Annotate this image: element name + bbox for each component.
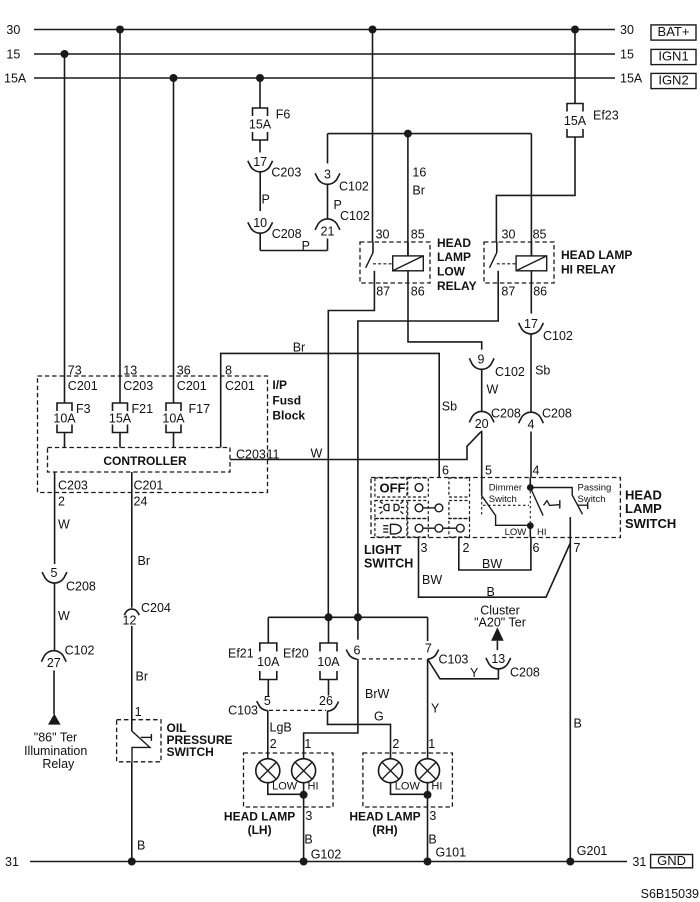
svg-text:Sb: Sb (442, 400, 457, 414)
svg-text:C208: C208 (272, 227, 302, 241)
svg-text:30: 30 (6, 23, 20, 37)
svg-text:G201: G201 (577, 844, 608, 858)
svg-text:HI RELAY: HI RELAY (561, 262, 616, 276)
svg-text:BW: BW (482, 557, 502, 571)
svg-text:C203: C203 (123, 379, 153, 393)
svg-text:Y: Y (431, 702, 440, 716)
svg-text:HEAD LAMP: HEAD LAMP (224, 810, 295, 824)
svg-text:10A: 10A (162, 411, 185, 425)
svg-text:LOW: LOW (505, 527, 527, 538)
svg-text:Br: Br (412, 184, 425, 198)
svg-text:30: 30 (620, 23, 634, 37)
svg-text:C201: C201 (225, 379, 255, 393)
svg-text:SWITCH: SWITCH (167, 745, 214, 759)
svg-text:Br: Br (138, 554, 151, 568)
svg-text:87: 87 (501, 285, 515, 299)
svg-text:C203: C203 (58, 479, 88, 493)
svg-text:RELAY: RELAY (437, 279, 477, 293)
svg-text:P: P (334, 198, 342, 212)
svg-text:6: 6 (442, 464, 449, 478)
svg-text:"A20" Ter: "A20" Ter (474, 616, 526, 630)
svg-text:Dimmer: Dimmer (489, 482, 522, 493)
svg-text:P: P (262, 193, 270, 207)
svg-text:3: 3 (305, 809, 312, 823)
svg-text:C203: C203 (236, 448, 266, 462)
svg-text:31: 31 (5, 855, 19, 869)
svg-text:2: 2 (463, 541, 470, 555)
svg-text:HI: HI (431, 780, 442, 792)
svg-text:Ef23: Ef23 (593, 109, 619, 123)
svg-text:B: B (428, 833, 436, 847)
svg-text:10A: 10A (53, 411, 76, 425)
svg-text:9: 9 (478, 352, 485, 366)
svg-text:SWITCH: SWITCH (364, 557, 413, 571)
svg-text:17: 17 (253, 155, 267, 169)
svg-text:1: 1 (428, 737, 435, 751)
svg-text:BW: BW (422, 573, 442, 587)
svg-text:2: 2 (270, 737, 277, 751)
svg-text:IGN1: IGN1 (658, 49, 688, 64)
svg-text:7: 7 (425, 642, 432, 656)
svg-text:B: B (574, 717, 582, 731)
svg-text:Switch: Switch (489, 494, 517, 505)
svg-text:7: 7 (574, 541, 581, 555)
svg-text:Ef20: Ef20 (283, 647, 309, 661)
svg-text:C103: C103 (228, 704, 258, 718)
svg-text:24: 24 (134, 495, 148, 509)
svg-text:6: 6 (533, 541, 540, 555)
svg-text:2: 2 (58, 495, 65, 509)
svg-text:B: B (137, 839, 145, 853)
svg-text:20: 20 (475, 417, 489, 431)
svg-text:P: P (302, 239, 310, 253)
svg-text:Y: Y (470, 666, 479, 680)
svg-text:C208: C208 (66, 580, 96, 594)
svg-text:17: 17 (524, 317, 538, 331)
svg-text:13: 13 (123, 364, 137, 378)
svg-text:30: 30 (502, 228, 516, 242)
svg-text:C102: C102 (495, 365, 525, 379)
svg-text:"86" Ter: "86" Ter (34, 731, 77, 745)
svg-text:15: 15 (620, 48, 634, 62)
svg-text:HEAD LAMP: HEAD LAMP (561, 248, 632, 262)
svg-text:C201: C201 (177, 379, 207, 393)
svg-text:C208: C208 (542, 407, 572, 421)
svg-text:15A: 15A (4, 72, 27, 86)
svg-text:I/P: I/P (272, 378, 287, 392)
svg-text:W: W (58, 609, 70, 623)
svg-text:26: 26 (319, 694, 333, 708)
svg-text:3: 3 (421, 541, 428, 555)
svg-text:15A: 15A (109, 411, 132, 425)
svg-text:1: 1 (135, 705, 142, 719)
svg-text:Br: Br (136, 670, 149, 684)
svg-text:G101: G101 (436, 846, 467, 860)
svg-text:3: 3 (324, 167, 331, 181)
svg-text:GND: GND (657, 853, 686, 868)
svg-text:C201: C201 (68, 379, 98, 393)
svg-text:S6B15039: S6B15039 (641, 887, 699, 901)
svg-text:W: W (58, 518, 70, 532)
svg-text:3: 3 (429, 809, 436, 823)
svg-text:86: 86 (411, 285, 425, 299)
svg-text:21: 21 (321, 224, 335, 238)
svg-text:2: 2 (392, 737, 399, 751)
svg-text:10: 10 (253, 216, 267, 230)
svg-text:Br: Br (293, 341, 306, 355)
svg-text:LIGHT: LIGHT (364, 543, 402, 557)
svg-text:OFF: OFF (380, 481, 406, 496)
svg-text:Block: Block (272, 409, 305, 423)
svg-text:B: B (304, 833, 312, 847)
svg-text:G102: G102 (311, 848, 342, 862)
svg-text:IGN2: IGN2 (658, 73, 688, 88)
svg-text:8: 8 (225, 364, 232, 378)
svg-text:5: 5 (51, 566, 58, 580)
svg-text:10A: 10A (257, 655, 280, 669)
svg-text:86: 86 (533, 285, 547, 299)
svg-text:C204: C204 (141, 601, 171, 615)
svg-text:W: W (487, 383, 499, 397)
svg-text:F21: F21 (132, 402, 154, 416)
svg-text:BAT+: BAT+ (658, 24, 690, 39)
svg-text:30: 30 (376, 228, 390, 242)
svg-text:13: 13 (491, 652, 505, 666)
svg-text:5: 5 (264, 694, 271, 708)
svg-text:Illumination: Illumination (24, 744, 87, 758)
svg-text:C203: C203 (271, 166, 301, 180)
svg-text:BrW: BrW (365, 687, 390, 701)
svg-text:15A: 15A (620, 72, 643, 86)
svg-text:LgB: LgB (270, 721, 292, 735)
svg-text:LOW: LOW (395, 780, 421, 792)
svg-text:15A: 15A (249, 118, 272, 132)
svg-text:LAMP: LAMP (437, 250, 471, 264)
svg-text:87: 87 (376, 285, 390, 299)
svg-text:F6: F6 (276, 108, 291, 122)
svg-text:11: 11 (267, 448, 280, 462)
svg-text:HI: HI (537, 527, 547, 538)
svg-text:Fusd: Fusd (272, 394, 301, 408)
svg-text:SWITCH: SWITCH (625, 516, 676, 531)
svg-text:Relay: Relay (42, 757, 75, 771)
svg-text:4: 4 (528, 418, 535, 432)
svg-text:CONTROLLER: CONTROLLER (103, 454, 187, 468)
svg-text:C208: C208 (491, 407, 521, 421)
svg-text:LOW: LOW (272, 780, 298, 792)
svg-text:85: 85 (411, 228, 425, 242)
svg-text:F3: F3 (76, 402, 91, 416)
svg-text:LAMP: LAMP (625, 501, 662, 516)
svg-text:C102: C102 (543, 329, 573, 343)
svg-text:C102: C102 (340, 209, 370, 223)
svg-text:5: 5 (485, 464, 492, 478)
svg-text:4: 4 (533, 464, 540, 478)
svg-text:W: W (311, 447, 323, 461)
svg-text:B: B (487, 585, 495, 599)
svg-text:C201: C201 (134, 479, 164, 493)
svg-text:36: 36 (177, 364, 191, 378)
svg-text:73: 73 (68, 364, 82, 378)
svg-text:15A: 15A (564, 114, 587, 128)
svg-text:HEAD: HEAD (437, 236, 471, 250)
svg-text:HEAD LAMP: HEAD LAMP (349, 810, 420, 824)
svg-text:(LH): (LH) (248, 823, 272, 837)
svg-text:(RH): (RH) (372, 823, 397, 837)
svg-text:G: G (374, 710, 384, 724)
svg-text:12: 12 (123, 614, 137, 628)
svg-text:C102: C102 (339, 180, 369, 194)
svg-text:Switch: Switch (578, 494, 606, 505)
svg-text:85: 85 (533, 228, 547, 242)
svg-text:C208: C208 (510, 666, 540, 680)
svg-text:F17: F17 (189, 402, 211, 416)
svg-text:C103: C103 (439, 653, 469, 667)
svg-text:Sb: Sb (535, 364, 550, 378)
svg-text:LOW: LOW (437, 265, 466, 279)
svg-text:16: 16 (412, 166, 426, 180)
svg-text:15: 15 (6, 48, 20, 62)
svg-text:HI: HI (308, 780, 319, 792)
svg-text:31: 31 (632, 855, 646, 869)
svg-text:Passing: Passing (578, 482, 612, 493)
svg-text:6: 6 (354, 644, 361, 658)
svg-text:1: 1 (304, 737, 311, 751)
svg-text:10A: 10A (317, 655, 340, 669)
svg-text:Ef21: Ef21 (228, 647, 254, 661)
svg-text:C102: C102 (65, 644, 95, 658)
svg-text:27: 27 (47, 656, 61, 670)
